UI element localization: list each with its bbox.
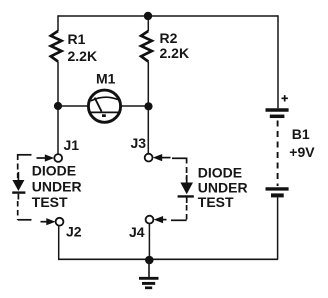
svg-text:2.2K: 2.2K (68, 48, 98, 64)
svg-text:M1: M1 (96, 71, 116, 87)
left test bracket vertical dashed upper (17, 154, 19, 178)
right test bracket vertical dashed upper (186, 158, 188, 181)
arrow into J3 (153, 154, 162, 161)
resistor R2 (141, 31, 152, 62)
svg-text:2.2K: 2.2K (160, 45, 190, 61)
right test bracket bottom (171, 219, 187, 221)
ground (139, 260, 159, 288)
arrow into J4 (154, 216, 163, 223)
wire J4 down to bottom junction (148, 224, 150, 260)
node left meter junction (54, 102, 62, 110)
wire top rail (58, 15, 278, 17)
svg-text:R1: R1 (68, 31, 86, 47)
node right meter junction (144, 102, 152, 110)
battery B1 (266, 95, 316, 195)
arrow into J2 (41, 221, 48, 223)
right test bracket top (172, 157, 187, 159)
wire second rail upper (147, 16, 149, 31)
wire J2 down to bottom rail (58, 226, 60, 260)
left test bracket top (18, 154, 32, 156)
wire right rail lower (277, 197, 279, 259)
svg-text:R2: R2 (160, 30, 178, 46)
meter M1 (88, 71, 120, 123)
svg-text:J4: J4 (129, 224, 145, 240)
svg-text:UNDER: UNDER (32, 178, 82, 194)
svg-text:DIODE: DIODE (198, 164, 242, 180)
left test bracket bottom (18, 219, 32, 221)
svg-text:TEST: TEST (198, 194, 234, 210)
svg-text:B1: B1 (292, 126, 310, 142)
wire meter left (58, 105, 88, 107)
node bottom junction (145, 256, 154, 265)
resistor R1 (51, 31, 62, 62)
wire left rail R1 to J1 (57, 62, 59, 155)
svg-text:UNDER: UNDER (198, 179, 248, 195)
wire second rail R2 to J3 (147, 62, 149, 154)
wire bottom rail (58, 258, 278, 260)
node top rail junction (144, 12, 152, 20)
svg-text:TEST: TEST (32, 194, 68, 210)
wire meter right (121, 105, 149, 107)
svg-text:+9V: +9V (289, 144, 315, 160)
diode under test left (12, 172, 25, 200)
svg-text:DIODE: DIODE (32, 163, 76, 179)
svg-text:J2: J2 (66, 224, 82, 240)
right test bracket vertical dashed lower (186, 205, 188, 221)
left test bracket vertical dashed lower (17, 201, 19, 220)
diode under test right (178, 175, 194, 203)
wire left rail upper (57, 15, 59, 31)
wire right rail upper (277, 15, 279, 108)
svg-text:J3: J3 (131, 135, 147, 151)
arrow into J1 (37, 157, 46, 159)
svg-text:J1: J1 (64, 137, 80, 153)
